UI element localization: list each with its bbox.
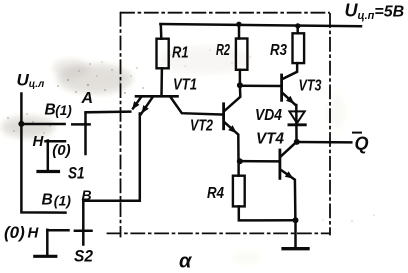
svg-text:(0): (0) xyxy=(4,223,25,242)
svg-text:R4: R4 xyxy=(207,185,224,202)
svg-text:VD4: VD4 xyxy=(255,107,282,124)
svg-text:R3: R3 xyxy=(270,42,287,59)
svg-text:B: B xyxy=(42,192,53,209)
svg-text:VT3: VT3 xyxy=(299,78,322,95)
svg-text:VT1: VT1 xyxy=(173,77,197,94)
svg-text:Uц.п=5В: Uц.п=5В xyxy=(345,1,405,23)
svg-text:R2: R2 xyxy=(216,42,230,59)
svg-text:H: H xyxy=(28,225,40,242)
svg-text:(0): (0) xyxy=(52,142,70,159)
svg-text:B: B xyxy=(82,187,92,203)
svg-text:(1): (1) xyxy=(54,193,71,209)
svg-text:α: α xyxy=(179,251,193,273)
svg-text:S2: S2 xyxy=(74,247,93,266)
svg-text:R1: R1 xyxy=(172,45,189,62)
svg-text:B: B xyxy=(45,102,56,119)
svg-text:VT2: VT2 xyxy=(190,118,213,135)
svg-text:VT4: VT4 xyxy=(256,131,284,148)
svg-text:(1): (1) xyxy=(55,103,72,118)
svg-text:H: H xyxy=(33,133,45,150)
svg-text:A: A xyxy=(81,90,94,107)
svg-text:Q: Q xyxy=(355,134,369,154)
svg-text:S1: S1 xyxy=(68,164,85,183)
